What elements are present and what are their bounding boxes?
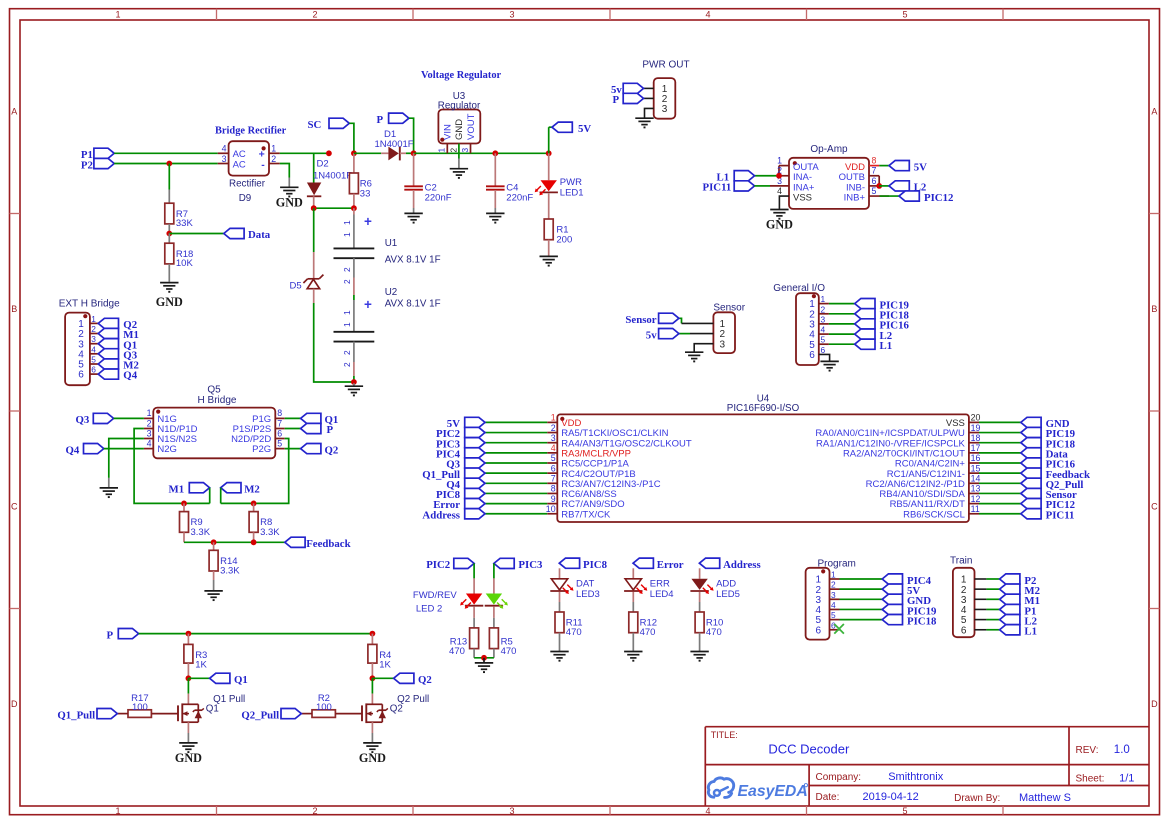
svg-text:3: 3 <box>720 339 726 350</box>
label Regulator <box>438 101 481 112</box>
net flag P top <box>377 113 409 126</box>
net flag Q4 u4l <box>446 478 485 491</box>
wire U4 pin20 <box>979 421 1021 423</box>
label D2 1N4001F <box>313 171 352 182</box>
svg-text:DAT: DAT <box>576 579 594 590</box>
net flag Data u4r <box>1021 448 1069 461</box>
svg-text:VIN: VIN <box>442 124 453 140</box>
led DAT <box>550 568 599 600</box>
wire Train pin1 <box>986 578 999 580</box>
junction C4 node <box>492 150 498 156</box>
label Bridge Rectifier <box>215 126 287 137</box>
svg-text:Q2: Q2 <box>325 444 339 456</box>
svg-text:3: 3 <box>147 428 152 438</box>
ground under R18 <box>156 283 183 309</box>
svg-text:A: A <box>11 107 17 117</box>
net flag PIC3 u4l <box>436 438 485 451</box>
svg-text:LED5: LED5 <box>716 589 740 600</box>
svg-text:P: P <box>107 629 114 641</box>
wire General I/O pin1 <box>829 303 855 305</box>
wire U4 pin18 <box>979 442 1021 444</box>
net flag Q1 drv <box>188 673 247 686</box>
capacitor C4 <box>486 153 533 213</box>
svg-text:1: 1 <box>342 322 352 327</box>
label Q1 Pull title <box>213 694 245 705</box>
svg-text:Q1 Pull: Q1 Pull <box>213 694 245 705</box>
svg-text:3.3K: 3.3K <box>220 566 240 577</box>
svg-text:33: 33 <box>360 188 371 199</box>
svg-text:18: 18 <box>971 433 981 443</box>
net flag L2 gio <box>855 329 892 342</box>
label Op-Amp <box>810 144 848 155</box>
net flag Q4 q5 <box>66 444 144 457</box>
net flag 5V op-amp <box>879 161 927 174</box>
svg-text:7: 7 <box>551 474 556 484</box>
ground Q1 <box>175 743 202 765</box>
resistor R13 <box>449 607 479 658</box>
svg-text:SC: SC <box>308 119 322 131</box>
svg-text:AVX 8.1V 1F: AVX 8.1V 1F <box>385 299 441 310</box>
svg-text:Op-Amp: Op-Amp <box>810 144 848 155</box>
svg-text:1: 1 <box>342 220 352 225</box>
ground rectifier <box>276 178 303 210</box>
svg-text:5: 5 <box>821 335 826 345</box>
ground C4 <box>486 213 504 222</box>
wire drain <box>371 678 373 704</box>
svg-text:1.0: 1.0 <box>1114 744 1130 756</box>
wire General I/O pin3 <box>829 323 855 325</box>
svg-text:4: 4 <box>91 344 96 354</box>
svg-text:100: 100 <box>316 702 332 713</box>
junction R4 top <box>370 631 376 637</box>
junction op-amp pin2 <box>776 173 782 179</box>
svg-text:4: 4 <box>551 443 556 453</box>
net flag PIC19 prog <box>882 604 937 617</box>
svg-text:GND: GND <box>156 295 183 309</box>
svg-text:8: 8 <box>551 484 556 494</box>
wire Program pin2 <box>840 588 883 590</box>
svg-text:5: 5 <box>277 438 282 448</box>
svg-text:+: + <box>364 297 372 312</box>
svg-text:6: 6 <box>821 345 826 355</box>
svg-text:Q4: Q4 <box>66 444 80 456</box>
wire U4 pin2 <box>485 432 547 434</box>
svg-text:2: 2 <box>831 580 836 590</box>
label DCC Decoder <box>768 741 850 756</box>
wire Train pin4 <box>986 608 999 610</box>
svg-text:3.3K: 3.3K <box>191 527 211 538</box>
net flag P pwr <box>613 93 644 106</box>
junction 329 on rail <box>326 150 332 156</box>
wire to Data flag <box>169 233 224 235</box>
svg-text:220nF: 220nF <box>425 192 452 203</box>
junction 5V node <box>546 150 552 156</box>
wire down to D5 <box>313 208 315 271</box>
resistor R3 <box>184 634 208 679</box>
svg-text:LED 2: LED 2 <box>416 603 442 614</box>
net flag Sensor u4r <box>1021 488 1077 501</box>
svg-text:5V: 5V <box>914 161 927 173</box>
svg-text:1/1: 1/1 <box>1119 773 1134 785</box>
svg-text:PIC18: PIC18 <box>907 615 937 627</box>
svg-text:A: A <box>1151 107 1157 117</box>
svg-text:2: 2 <box>821 304 826 314</box>
wire U4 pin16 <box>979 462 1021 464</box>
svg-text:4: 4 <box>777 186 782 196</box>
wire Train pin3 <box>986 598 999 600</box>
svg-text:Q1: Q1 <box>234 674 248 686</box>
net flag PIC4 u4l <box>436 448 485 461</box>
net flag PIC18 gio <box>855 309 910 322</box>
junction bi-led <box>481 655 487 661</box>
junction M2 node <box>251 501 257 507</box>
svg-text:Q2 Pull: Q2 Pull <box>397 694 429 705</box>
svg-text:3: 3 <box>509 806 514 816</box>
net flag L2 <box>879 181 926 194</box>
svg-text:D2: D2 <box>317 159 329 170</box>
net flag 5V prog <box>882 584 920 597</box>
svg-text:3: 3 <box>831 590 836 600</box>
svg-text:1K: 1K <box>195 659 207 670</box>
label Program <box>818 558 856 569</box>
net flag M2 train <box>1000 584 1040 597</box>
label D9 <box>239 193 252 204</box>
svg-text:TITLE:: TITLE: <box>711 730 738 740</box>
net flag P2 train <box>1000 574 1037 587</box>
ground C2 <box>404 213 422 222</box>
net flag P1 train <box>1000 604 1037 617</box>
wire D5 to bottom junction <box>314 303 354 382</box>
label TITLE: <box>711 730 738 740</box>
connector Program <box>806 568 840 640</box>
svg-text:Q5: Q5 <box>207 384 221 395</box>
svg-text:PIC8: PIC8 <box>583 559 608 571</box>
resistor R2 gate <box>301 693 362 717</box>
svg-text:14: 14 <box>971 474 981 484</box>
wire source to ground <box>187 722 189 742</box>
svg-text:P: P <box>327 424 334 436</box>
svg-text:L1: L1 <box>880 340 893 352</box>
svg-text:2: 2 <box>147 418 152 428</box>
wire q5 pin2 to M1 node <box>134 429 210 504</box>
label Sensor title <box>713 302 745 313</box>
svg-text:2: 2 <box>448 148 458 153</box>
svg-text:Smithtronix: Smithtronix <box>888 771 944 783</box>
svg-text:D5: D5 <box>290 280 302 291</box>
label Q5 <box>207 384 221 395</box>
wire source to ground <box>371 722 373 742</box>
svg-text:2019-04-12: 2019-04-12 <box>863 791 919 803</box>
resistor R11 <box>555 592 583 651</box>
label General I/O <box>773 283 825 294</box>
wire bi-led join <box>474 657 494 659</box>
svg-text:17: 17 <box>971 443 981 453</box>
resistor R14 <box>209 542 240 590</box>
junction Q1 gate node <box>186 675 192 681</box>
svg-text:P: P <box>377 114 384 126</box>
svg-text:3: 3 <box>551 433 556 443</box>
supercap U2 <box>334 278 375 383</box>
net flag Q1 ehb <box>98 339 137 352</box>
svg-text:5: 5 <box>902 9 907 19</box>
label U3 <box>453 91 466 102</box>
net flag Q1 q5 <box>285 413 339 426</box>
svg-text:Q1: Q1 <box>206 704 219 715</box>
easyeda logo <box>708 778 807 800</box>
label Q1 <box>206 704 219 715</box>
svg-text:M1: M1 <box>169 483 185 495</box>
wire rectifier pin1 to rail <box>280 152 329 154</box>
svg-text:1N4001F: 1N4001F <box>313 171 352 182</box>
svg-text:Q2_Pull: Q2_Pull <box>241 710 279 722</box>
transistor Q2 <box>362 703 388 723</box>
net flag Feedback u4r <box>1021 468 1090 481</box>
svg-text:Q1_Pull: Q1_Pull <box>57 710 95 722</box>
net flag Q2_Pull u4r <box>1021 478 1084 491</box>
svg-text:C: C <box>11 502 18 512</box>
wire rail D1 to 5V node <box>414 152 549 154</box>
label Q2 Pull title <box>397 694 429 705</box>
wire General I/O pin5 <box>829 343 855 345</box>
svg-text:B: B <box>1151 304 1157 314</box>
net flag P q5 <box>285 423 334 436</box>
svg-text:PIC12: PIC12 <box>924 192 953 204</box>
svg-text:PWR OUT: PWR OUT <box>642 60 689 71</box>
svg-text:GND: GND <box>175 751 202 765</box>
svg-text:GND: GND <box>766 218 793 232</box>
svg-text:PIC3: PIC3 <box>518 559 543 571</box>
svg-text:1: 1 <box>437 148 447 153</box>
net flag Q3 u4l <box>446 458 485 471</box>
label Date: <box>816 792 840 803</box>
led ERR <box>624 568 673 600</box>
label EXT H Bridge <box>59 298 120 309</box>
net flag M2 <box>221 483 260 504</box>
wire P2 to rectifier pin3 <box>114 163 218 165</box>
wire feedback bus <box>184 541 285 543</box>
wire rail D2 branch down <box>313 153 315 182</box>
svg-text:1: 1 <box>91 314 96 324</box>
svg-text:100: 100 <box>132 702 148 713</box>
bridge rectifier D9 <box>218 141 280 175</box>
svg-text:470: 470 <box>566 627 582 638</box>
net flag Q4 ehb <box>98 369 137 382</box>
svg-text:D: D <box>1151 699 1158 709</box>
net flag GND prog <box>882 594 931 607</box>
svg-text:2: 2 <box>91 324 96 334</box>
svg-text:FWD/REV: FWD/REV <box>413 590 457 601</box>
svg-text:200: 200 <box>556 234 572 245</box>
svg-text:5: 5 <box>872 186 877 196</box>
svg-text:B: B <box>11 304 17 314</box>
label 1/1 <box>1119 773 1134 785</box>
net flag Q1_Pull <box>57 709 117 722</box>
svg-text:470: 470 <box>706 627 722 638</box>
junction SC/R6 on rail <box>351 150 357 156</box>
net flag L2 train <box>1000 615 1037 628</box>
ground PWR OUT <box>635 118 653 127</box>
svg-text:6: 6 <box>91 365 96 375</box>
label 1.0 <box>1114 744 1130 756</box>
svg-text:5: 5 <box>831 610 836 620</box>
ground bi-led <box>475 658 493 672</box>
svg-text:Address: Address <box>723 559 761 571</box>
net flag Sensor <box>625 313 679 326</box>
svg-text:PIC11: PIC11 <box>703 182 732 194</box>
wire U4 pin7 <box>485 482 547 484</box>
svg-text:4: 4 <box>705 806 710 816</box>
led ADD <box>690 568 739 600</box>
svg-text:H Bridge: H Bridge <box>198 395 237 406</box>
wire U4 pin6 <box>485 472 547 474</box>
op-amp U? <box>770 156 889 209</box>
led FWD/REV green <box>485 563 508 608</box>
label PIC16F690-I/SO <box>727 403 800 414</box>
junction R6 node <box>351 205 357 211</box>
net flag GND u4r <box>1021 417 1070 430</box>
wire U4 pin4 <box>485 452 547 454</box>
svg-text:GND: GND <box>276 196 303 210</box>
wire U4 pin3 <box>485 442 547 444</box>
svg-text:Q4: Q4 <box>123 370 137 382</box>
wire Train pin5 <box>986 619 999 621</box>
svg-text:6: 6 <box>809 350 815 361</box>
svg-text:U2: U2 <box>385 287 398 298</box>
svg-text:P: P <box>613 94 620 106</box>
svg-text:ERR: ERR <box>650 579 670 590</box>
net flag L1 gio <box>855 339 892 352</box>
net flag 5V u4l <box>447 417 485 430</box>
svg-text:16: 16 <box>971 453 981 463</box>
wire P1 to rectifier pin4 <box>114 152 218 154</box>
net flag Error <box>633 558 684 571</box>
diode D2 <box>307 183 321 209</box>
junction R3 top <box>186 631 192 637</box>
net flag Q2 ehb <box>98 318 137 331</box>
connector Train <box>953 568 987 637</box>
ground U3 <box>450 159 468 178</box>
net flag 5v sensor <box>646 329 679 342</box>
net flag Q3 ehb <box>98 349 137 362</box>
svg-text:Q2: Q2 <box>390 704 403 715</box>
svg-text:1K: 1K <box>379 659 391 670</box>
svg-text:2: 2 <box>312 806 317 816</box>
svg-text:3: 3 <box>91 334 96 344</box>
svg-text:Q3: Q3 <box>76 414 90 426</box>
net flag PIC18 prog <box>882 615 937 628</box>
svg-text:DCC Decoder: DCC Decoder <box>768 741 850 756</box>
svg-text:AVX 8.1V 1F: AVX 8.1V 1F <box>385 255 441 266</box>
junction Data node <box>166 231 172 237</box>
svg-text:C: C <box>1151 502 1158 512</box>
wire U4 pin1 <box>485 421 547 423</box>
svg-text:1: 1 <box>115 806 120 816</box>
ground R1 <box>540 256 558 265</box>
resistor R9 <box>180 503 211 542</box>
svg-text:VSS: VSS <box>793 192 812 203</box>
svg-text:Data: Data <box>248 229 271 241</box>
wire U4 pin8 <box>485 492 547 494</box>
svg-text:4: 4 <box>821 325 826 335</box>
svg-text:2: 2 <box>342 362 352 367</box>
wire U4 pin11 <box>979 513 1021 515</box>
svg-text:7: 7 <box>872 166 877 176</box>
net flag M1 ehb <box>98 328 139 341</box>
svg-text:Matthew S: Matthew S <box>1019 792 1071 804</box>
junction bottom cap node <box>351 379 357 385</box>
svg-text:1: 1 <box>821 294 826 304</box>
ground supercap <box>345 383 363 395</box>
connector PWR OUT <box>644 78 676 119</box>
svg-text:GND: GND <box>454 119 465 140</box>
svg-text:4: 4 <box>147 438 152 448</box>
ground ADD <box>690 652 708 661</box>
svg-text:33K: 33K <box>176 218 194 229</box>
ground General I/O <box>820 361 838 370</box>
net flag M2 ehb <box>98 359 139 372</box>
ground Sensor <box>685 352 703 361</box>
junction Q2 gate node <box>370 675 376 681</box>
svg-text:Rectifier: Rectifier <box>229 179 266 190</box>
svg-text:EasyEDA: EasyEDA <box>738 783 808 800</box>
net flag Address u4l <box>422 509 485 522</box>
svg-text:P2: P2 <box>81 159 93 171</box>
net flag P bottom <box>107 629 139 642</box>
svg-text:M2: M2 <box>244 483 260 495</box>
svg-text:D: D <box>11 699 18 709</box>
svg-text:Train: Train <box>950 556 972 567</box>
net flag PIC11 left <box>703 181 770 194</box>
svg-text:13: 13 <box>971 484 981 494</box>
svg-text:PIC16F690-I/SO: PIC16F690-I/SO <box>727 403 800 414</box>
wire U4 pin10 <box>485 513 547 515</box>
ground Q2 <box>359 743 386 765</box>
wire U4 pin14 <box>979 482 1021 484</box>
junction op-amp pin6 <box>876 183 882 189</box>
svg-text:220nF: 220nF <box>506 192 533 203</box>
svg-text:20: 20 <box>971 413 981 423</box>
svg-text:Company:: Company: <box>816 772 862 783</box>
wire General I/O pin2 <box>829 313 855 315</box>
svg-text:LED3: LED3 <box>576 589 600 600</box>
net flag PIC2 u4l <box>436 427 485 440</box>
label D1 <box>384 129 396 140</box>
wire Program pin1 <box>840 578 883 580</box>
net flag M1 train <box>1000 594 1040 607</box>
svg-text:LED1: LED1 <box>560 187 584 198</box>
svg-text:470: 470 <box>640 627 656 638</box>
resistor R7 <box>165 190 194 234</box>
wire rectifier pin2 to ground <box>280 164 290 178</box>
svg-text:6: 6 <box>78 370 84 381</box>
svg-text:Drawn By:: Drawn By: <box>954 793 1000 804</box>
label LED 2 <box>416 603 442 614</box>
led PWR LED1 <box>535 153 584 198</box>
wire Program pin3 <box>840 598 883 600</box>
net flag PIC12 right <box>880 191 954 204</box>
svg-text:2: 2 <box>551 423 556 433</box>
label U1 <box>385 238 398 249</box>
svg-text:5: 5 <box>91 355 96 365</box>
svg-text:2: 2 <box>312 9 317 19</box>
capacitor C2 <box>404 153 451 213</box>
svg-text:1: 1 <box>551 413 556 423</box>
resistor R4 <box>368 634 392 679</box>
svg-text:470: 470 <box>449 646 465 657</box>
svg-text:6: 6 <box>816 625 822 636</box>
voltage regulator U3 <box>437 110 481 159</box>
label FWD/REV <box>413 590 457 601</box>
